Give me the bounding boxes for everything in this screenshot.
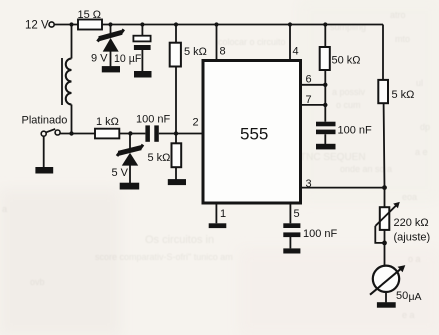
- svg-text:5: 5: [294, 208, 300, 220]
- wire pin 7: [301, 104, 326, 106]
- junction rail-pin8: [214, 22, 218, 26]
- svg-text:100 nF: 100 nF: [338, 125, 373, 137]
- capacitor C2 100nF: [136, 113, 171, 142]
- svg-text:o cum: o cum: [336, 100, 361, 110]
- svg-text:ovb: ovb: [30, 277, 45, 287]
- capacitor C1 10uF electrolytic: [114, 25, 151, 72]
- svg-text:100 nF: 100 nF: [303, 228, 338, 240]
- switch points contact right: [55, 130, 60, 135]
- junction rail-cap10: [140, 22, 144, 26]
- meter M1 50uA: [370, 265, 422, 303]
- pin 3 label: [306, 178, 312, 190]
- svg-text:220 kΩ: 220 kΩ: [394, 217, 429, 229]
- ground below 10uF: [134, 71, 152, 78]
- svg-text:555: 555: [240, 125, 268, 144]
- switch points contact left: [41, 131, 46, 136]
- svg-text:10 µF: 10 µF: [114, 53, 142, 65]
- resistor R3 5 kohm upper: [170, 25, 207, 134]
- pin 8 label: [220, 45, 226, 57]
- svg-text:colocar o circuito: colocar o circuito: [218, 37, 286, 47]
- wire supply rail: [54, 24, 383, 26]
- junction rail-50k: [323, 22, 327, 26]
- ground below R4: [168, 179, 186, 185]
- wire pot bottom: [384, 230, 386, 266]
- svg-text:sumpling: sumpling: [330, 22, 366, 32]
- wire pin 5: [289, 203, 291, 223]
- junction rail-5k: [174, 22, 178, 26]
- svg-text:dp: dp: [420, 122, 430, 132]
- svg-text:ul: ul: [416, 78, 423, 88]
- wire switch to ground: [43, 136, 45, 167]
- svg-text:μA: μA: [409, 291, 422, 303]
- wire cap to pin2: [159, 133, 203, 135]
- resistor R4 5 kohm to ground: [148, 134, 182, 180]
- svg-text:7: 7: [306, 94, 312, 106]
- op IC U1 555 timer: [203, 61, 301, 204]
- svg-text:100 nF: 100 nF: [136, 113, 171, 125]
- junction node pin2: [174, 131, 178, 135]
- wire switch to node A: [60, 133, 95, 135]
- junction rail-inductor: [69, 22, 73, 26]
- node 12V supply label: [25, 20, 49, 32]
- resistor R5 50 kohm: [320, 25, 361, 122]
- pin 4 label: [293, 46, 299, 58]
- svg-text:TNC SEQUEN: TNC SEQUEN: [300, 152, 366, 163]
- capacitor C4 100nF on pin5: [283, 223, 337, 248]
- wire inductor top: [71, 25, 73, 59]
- potentiometer P1 220 kohm: [375, 202, 430, 243]
- svg-text:3: 3: [306, 178, 312, 190]
- capacitor C3 100nF on pin7: [316, 122, 372, 144]
- pin 2 label: [193, 116, 199, 128]
- svg-text:(ajuste): (ajuste): [394, 231, 431, 243]
- pin 7 label: [306, 94, 312, 106]
- svg-text:a e: a e: [415, 147, 428, 157]
- svg-text:Os circuitos in: Os circuitos in: [145, 234, 214, 246]
- pin 5 label: [294, 208, 300, 220]
- wire pin 6: [301, 84, 326, 86]
- junction switch-inductor: [69, 131, 73, 135]
- svg-text:5 kΩ: 5 kΩ: [184, 46, 207, 58]
- svg-text:e a: e a: [402, 310, 415, 320]
- svg-text:9 V: 9 V: [91, 53, 108, 65]
- inductor L1 coil: [62, 58, 72, 105]
- pin 6 label: [306, 74, 312, 86]
- wire meter to ground: [385, 292, 387, 302]
- svg-text:mto: mto: [395, 34, 410, 44]
- svg-text:a possiv: a possiv: [332, 87, 366, 97]
- svg-text:50 kΩ: 50 kΩ: [332, 55, 361, 67]
- svg-text:1: 1: [220, 208, 226, 220]
- node Platinado label: [22, 114, 68, 126]
- svg-text:5 kΩ: 5 kΩ: [148, 152, 171, 164]
- wire pin 3: [301, 187, 385, 189]
- resistor R2 1 kohm: [95, 116, 119, 138]
- svg-text:15 Ω: 15 Ω: [78, 9, 102, 21]
- svg-text:2: 2: [193, 116, 199, 128]
- ground below 5V zener: [120, 183, 140, 190]
- junction rail-zener9: [108, 22, 112, 26]
- svg-text:score comparativ-S-ofri" tunic: score comparativ-S-ofri" tunico am: [95, 252, 233, 262]
- wire right vertical top: [382, 25, 384, 80]
- ground below C3: [316, 144, 336, 150]
- 12V input terminal: [49, 22, 54, 27]
- ground pin 1: [209, 223, 227, 228]
- wire pin 8: [216, 25, 218, 61]
- junction pin3-right: [382, 185, 387, 190]
- ground below meter: [377, 302, 396, 308]
- wire pin 1: [215, 203, 217, 223]
- pin 1 label: [220, 208, 226, 220]
- svg-text:o a: o a: [408, 254, 421, 264]
- svg-text:4: 4: [293, 46, 299, 58]
- svg-text:atro: atro: [390, 10, 406, 20]
- wire right vertical middle: [383, 103, 386, 207]
- junction rail-pin4: [288, 22, 292, 26]
- svg-text:Platinado: Platinado: [22, 114, 68, 126]
- svg-text:12 V: 12 V: [25, 20, 49, 32]
- junction pin7-50k: [323, 103, 327, 107]
- svg-text:5 kΩ: 5 kΩ: [392, 89, 415, 101]
- svg-text:50: 50: [396, 290, 408, 302]
- wire 1k to cap: [119, 133, 145, 135]
- ground below C4: [283, 248, 300, 253]
- wire pin 4: [289, 25, 291, 61]
- svg-text:5 V: 5 V: [112, 167, 129, 179]
- resistor R6 5 kohm right: [378, 80, 414, 103]
- junction pot wiper: [382, 241, 387, 246]
- ground below 9V zener: [102, 66, 120, 72]
- junction pin6-50k: [323, 83, 327, 87]
- switch points arm: [46, 129, 55, 132]
- svg-text:6: 6: [306, 74, 312, 86]
- junction node zener5: [128, 131, 132, 135]
- wire inductor bottom: [71, 105, 73, 134]
- svg-text:8: 8: [220, 45, 226, 57]
- svg-text:1 kΩ: 1 kΩ: [96, 116, 119, 128]
- svg-text:a: a: [2, 204, 7, 214]
- resistor R1 15 ohm: [78, 9, 103, 30]
- ground below switch: [35, 167, 53, 174]
- svg-text:eoa: eoa: [402, 192, 417, 202]
- zener diode D2 5V: [112, 134, 144, 184]
- zener diode D1 9V: [91, 25, 124, 67]
